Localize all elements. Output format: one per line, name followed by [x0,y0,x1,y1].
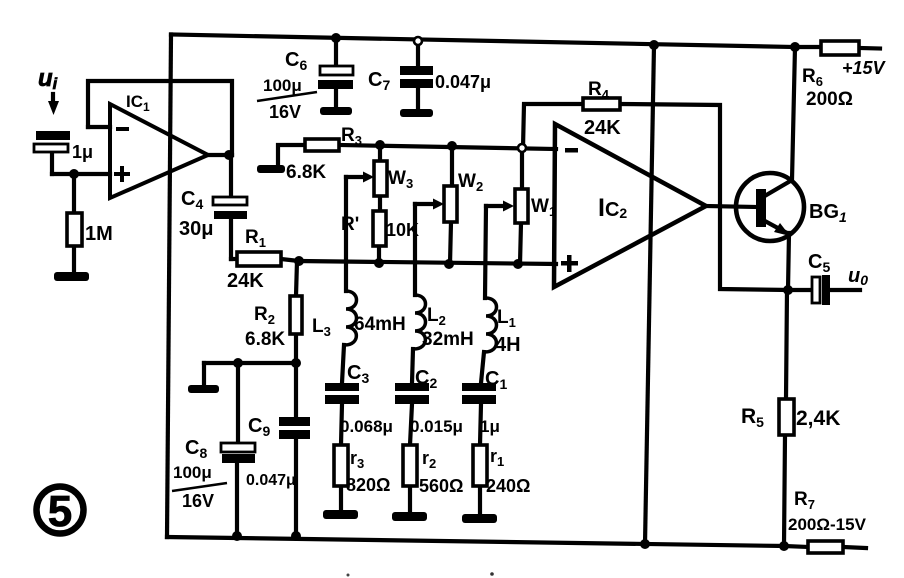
svg-text:100μ: 100μ [263,76,302,95]
svg-text:C7: C7 [368,69,390,93]
svg-text:1μ: 1μ [480,417,500,436]
svg-text:L3: L3 [312,316,331,339]
svg-text:6.8K: 6.8K [245,329,285,350]
svg-text:C4: C4 [181,188,203,212]
svg-text:IC1: IC1 [126,92,150,114]
svg-text:W2: W2 [458,171,483,194]
svg-text:1M: 1M [85,223,113,245]
svg-text:L1: L1 [497,307,516,330]
svg-text:R3: R3 [341,125,362,148]
svg-text:64mH: 64mH [354,314,406,335]
svg-text:0.068μ: 0.068μ [340,417,393,436]
svg-text:Rʹ: Rʹ [341,214,359,235]
svg-text:C3: C3 [347,362,369,386]
svg-text:32mH: 32mH [422,329,474,350]
svg-text:C5: C5 [808,251,830,275]
svg-text:200Ω: 200Ω [806,89,853,110]
svg-text:16V: 16V [182,491,214,511]
svg-text:ui: ui [38,65,58,93]
svg-text:24K: 24K [584,117,621,139]
svg-text:24K: 24K [227,270,264,292]
svg-text:0.047μ: 0.047μ [435,72,491,92]
svg-text:R7: R7 [794,489,815,512]
svg-text:BG1: BG1 [809,201,847,225]
svg-text:r3: r3 [350,448,364,471]
svg-text:0.047μ: 0.047μ [246,472,296,489]
svg-text:u0: u0 [848,265,868,288]
svg-text:820Ω: 820Ω [346,475,390,495]
svg-text:200Ω-15V: 200Ω-15V [788,515,867,534]
svg-text:C9: C9 [248,415,270,439]
svg-text:C6: C6 [285,49,307,73]
svg-text:R6: R6 [802,66,823,89]
svg-text:L2: L2 [427,305,446,328]
svg-text:6.8K: 6.8K [286,162,326,183]
svg-text:+15V: +15V [842,58,887,78]
svg-text:C2: C2 [415,367,437,391]
svg-text:1μ: 1μ [72,142,93,162]
svg-text:560Ω: 560Ω [419,476,463,496]
svg-text:0.015μ: 0.015μ [410,417,463,436]
svg-text:240Ω: 240Ω [486,476,530,496]
svg-text:16V: 16V [269,102,301,122]
svg-text:R2: R2 [254,304,275,327]
svg-text:IC2: IC2 [598,194,627,222]
svg-text:r2: r2 [422,448,436,471]
svg-text:r1: r1 [490,446,504,469]
svg-text:C1: C1 [485,368,507,392]
svg-text:R5: R5 [741,405,764,430]
svg-text:100μ: 100μ [173,463,212,482]
svg-text:C8: C8 [185,437,207,461]
svg-text:R1: R1 [245,227,266,250]
svg-text:R4: R4 [588,79,610,102]
svg-text:4H: 4H [495,334,521,356]
svg-text:30μ: 30μ [179,218,213,240]
svg-text:5: 5 [48,487,72,536]
svg-text:2,4K: 2,4K [796,407,840,430]
svg-text:W3: W3 [388,168,413,191]
svg-text:10K: 10K [386,220,419,240]
